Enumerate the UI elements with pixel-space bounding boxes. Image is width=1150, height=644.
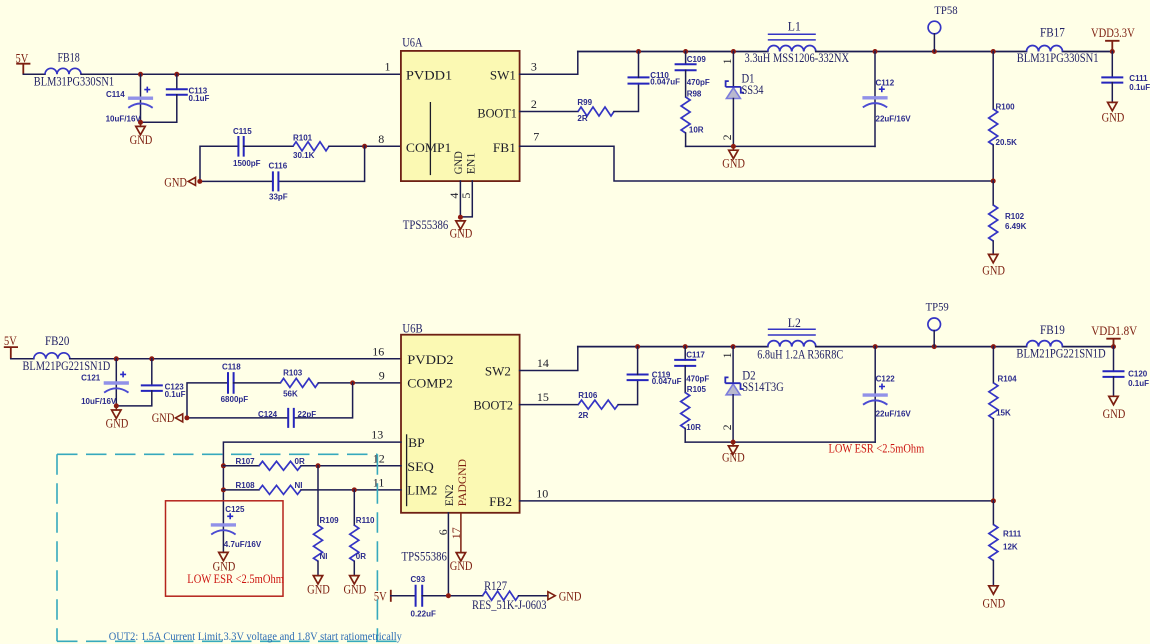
resistor R127 RES_51K-J-0603: [472, 579, 547, 612]
svg-text:GND: GND: [130, 133, 153, 147]
capacitor C120 0.1uF: [1103, 347, 1150, 397]
wire C118 to R103: [234, 382, 281, 384]
capacitor C125 4.7uF/16V (polarized): [211, 505, 262, 553]
wire R106 to C119: [618, 380, 637, 405]
svg-text:L2: L2: [788, 316, 801, 330]
svg-text:5: 5: [459, 193, 473, 199]
capacitor C113 0.1uF: [141, 74, 210, 122]
capacitor C118 6800pF: [221, 363, 249, 404]
svg-text:R111: R111: [1003, 529, 1022, 538]
junction C114/C113 ground node: [138, 120, 143, 125]
svg-text:C115: C115: [233, 127, 252, 136]
svg-text:9: 9: [379, 368, 385, 382]
junction C121/C123 ground node: [114, 403, 119, 408]
svg-text:22pF: 22pF: [298, 410, 317, 419]
svg-text:BLM21PG221SN1D: BLM21PG221SN1D: [1016, 346, 1105, 360]
svg-text:GND: GND: [307, 582, 330, 596]
svg-text:R104: R104: [998, 374, 1018, 383]
junction R109 top (SEQ node): [316, 463, 321, 468]
junction C121 top: [114, 356, 119, 361]
capacitor C114 10uF/16V (polarized): [106, 74, 154, 123]
svg-text:SEQ: SEQ: [407, 459, 434, 474]
capacitor C116 33pF: [269, 162, 288, 202]
wire R99 to C110: [614, 84, 639, 112]
svg-text:8: 8: [378, 132, 384, 146]
resistor R104 15K: [989, 347, 1017, 501]
wire BOOT1 to R99: [520, 111, 578, 113]
junction C123 top: [149, 356, 154, 361]
diode D2 SS14T3G (schottky): [725, 347, 784, 443]
svg-text:2: 2: [722, 424, 734, 430]
svg-text:0.1uF: 0.1uF: [165, 390, 186, 399]
svg-text:R107: R107: [236, 457, 256, 466]
ground under PADGND: [450, 553, 473, 573]
svg-text:10uF/16V: 10uF/16V: [106, 115, 142, 124]
svg-text:GND: GND: [106, 416, 129, 430]
svg-text:12K: 12K: [1003, 542, 1018, 551]
svg-text:15: 15: [537, 390, 549, 404]
svg-text:1: 1: [722, 352, 734, 358]
wire C124 lower branch: [187, 383, 353, 418]
svg-text:10uF/16V: 10uF/16V: [81, 397, 117, 406]
junction D2 rail: [731, 344, 736, 349]
junction COMP1 node: [362, 144, 367, 149]
svg-text:GND: GND: [164, 175, 187, 189]
svg-text:L1: L1: [788, 19, 801, 33]
junction COMP2 ground node: [184, 415, 189, 420]
junction C113 top: [174, 72, 179, 77]
svg-text:GND: GND: [152, 411, 175, 425]
wire EN2 pin 6 down: [447, 513, 449, 596]
ground under D1: [722, 146, 745, 170]
annotation box LOW ESR (red): [166, 501, 284, 596]
svg-text:0.22uF: 0.22uF: [411, 609, 436, 618]
capacitor C111 0.1uF: [1101, 52, 1150, 103]
resistor R109 NI: [314, 466, 340, 576]
svg-text:C116: C116: [269, 162, 288, 171]
ground under C111: [1102, 102, 1125, 124]
svg-text:16: 16: [372, 344, 384, 358]
svg-text:GND: GND: [1103, 407, 1126, 421]
svg-text:C114: C114: [106, 90, 125, 99]
capacitor C117 470pF: [674, 347, 709, 393]
svg-text:SW2: SW2: [485, 363, 511, 378]
svg-text:FB18: FB18: [58, 51, 80, 65]
ground under C121: [106, 406, 129, 431]
svg-text:PADGND: PADGND: [455, 459, 469, 507]
svg-text:GND: GND: [343, 582, 366, 596]
wire BP to C125: [223, 442, 401, 525]
svg-text:BLM31PG330SN1: BLM31PG330SN1: [1017, 51, 1099, 65]
svg-text:BP: BP: [408, 435, 425, 450]
svg-text:20.5K: 20.5K: [996, 138, 1018, 147]
wire output rail (L2 to VDD1.8V): [816, 346, 1114, 348]
svg-text:PVDD2: PVDD2: [407, 352, 453, 367]
svg-text:56K: 56K: [283, 389, 298, 398]
ground under R111: [982, 586, 1005, 611]
resistor R100 20.5K: [989, 52, 1017, 182]
resistor R107 0R: [223, 457, 401, 470]
junction C117 rail: [683, 344, 688, 349]
svg-text:C122: C122: [876, 374, 896, 383]
power flag VDD3.3V: [1091, 26, 1135, 51]
junction VDD1.8V node: [1111, 344, 1116, 349]
svg-text:SS14T3G: SS14T3G: [742, 380, 784, 394]
wire R101 to pin COMP1: [329, 145, 401, 147]
wire pins 4,5 to ground: [460, 181, 472, 217]
ground under U6A pins 4,5: [450, 221, 473, 241]
junction C110 rail: [636, 49, 641, 54]
op-amp / regulator U6A TPS55386: [401, 34, 520, 231]
svg-text:LIM2: LIM2: [407, 483, 437, 498]
annotation dashed box OUT2: [57, 454, 402, 641]
svg-text:R102: R102: [1005, 212, 1025, 221]
junction C119 rail: [635, 344, 640, 349]
svg-text:BLM21PG221SN1D: BLM21PG221SN1D: [23, 359, 111, 373]
capacitor C122 22uF/16V (polarized): [863, 347, 912, 443]
junction COMP1 ground node: [197, 179, 202, 184]
svg-text:R109: R109: [320, 516, 340, 525]
svg-text:C125: C125: [225, 505, 245, 514]
junction TP58 rail: [932, 49, 937, 54]
svg-text:COMP2: COMP2: [407, 376, 453, 391]
svg-text:7: 7: [533, 130, 539, 144]
junction C114 top: [138, 72, 143, 77]
wire FB2 to divider: [520, 500, 994, 502]
wire output rail (L1 to VDD3.3V): [816, 51, 1113, 53]
svg-text:22uF/16V: 22uF/16V: [876, 410, 912, 419]
svg-text:6.49K: 6.49K: [1005, 222, 1027, 231]
svg-text:C118: C118: [222, 363, 241, 372]
svg-text:C120: C120: [1128, 370, 1148, 379]
svg-text:GND: GND: [450, 227, 473, 241]
svg-text:12: 12: [373, 451, 385, 465]
svg-text:GND: GND: [450, 559, 473, 573]
diode D1 SS34 (schottky): [726, 52, 765, 147]
junction C109 rail: [683, 49, 688, 54]
ground under R110: [343, 576, 366, 597]
ground under C125: [213, 552, 236, 573]
svg-text:R100: R100: [996, 103, 1016, 112]
ferrite bead FB17: [1017, 25, 1099, 65]
ground (arrow) COMP1 network: [164, 175, 195, 189]
resistor R101 30.1K: [293, 134, 329, 161]
svg-text:EN2: EN2: [442, 484, 456, 506]
svg-text:1: 1: [385, 60, 391, 74]
junction VDD3.3V node: [1110, 49, 1115, 54]
svg-text:30.1K: 30.1K: [293, 151, 315, 160]
ferrite bead FB20: [23, 334, 111, 373]
svg-text:0.1uF: 0.1uF: [1129, 83, 1150, 92]
svg-text:GND: GND: [982, 264, 1005, 278]
svg-text:TPS55386: TPS55386: [402, 549, 447, 563]
ground (arrow) after R127: [548, 590, 582, 604]
svg-text:C121: C121: [81, 374, 101, 383]
svg-text:2: 2: [531, 97, 537, 111]
junction R110 top (LIM2 node): [352, 487, 357, 492]
svg-text:U6B: U6B: [402, 320, 423, 335]
wire output rail (SW2 node to L2): [578, 346, 768, 348]
wire SW2 to output rail: [520, 347, 578, 371]
svg-text:VDD3.3V: VDD3.3V: [1091, 26, 1135, 40]
resistor R102 6.49K: [989, 181, 1027, 254]
junction pins 4/5 ground: [458, 215, 463, 220]
resistor R106 2R: [578, 391, 618, 420]
svg-text:BOOT1: BOOT1: [477, 105, 517, 120]
svg-text:10: 10: [536, 486, 548, 500]
power flag VDD1.8V: [1091, 324, 1137, 347]
resistor R103 56K: [280, 368, 318, 398]
junction D2 ground: [731, 440, 736, 445]
svg-text:FB20: FB20: [45, 334, 69, 348]
svg-text:C117: C117: [686, 350, 705, 359]
test point TP59: [926, 300, 949, 347]
junction FB2 node: [991, 498, 996, 503]
svg-text:6.8uH 1.2A R36R8C: 6.8uH 1.2A R36R8C: [757, 347, 843, 361]
wire 5V to C93: [391, 595, 416, 597]
ground under D2: [722, 442, 745, 465]
power flag 5V (EN2 RC): [374, 590, 391, 604]
wire C115 to R101: [244, 145, 293, 147]
svg-text:SW1: SW1: [490, 68, 516, 83]
svg-text:LOW ESR <2.5mOhm: LOW ESR <2.5mOhm: [187, 572, 284, 586]
junction R107 left: [221, 463, 226, 468]
ground under R102: [982, 254, 1005, 277]
svg-text:C93: C93: [411, 575, 426, 584]
svg-text:2: 2: [722, 134, 734, 140]
svg-text:SS34: SS34: [742, 83, 765, 97]
svg-text:14: 14: [537, 356, 549, 370]
resistor R99 2R: [577, 98, 614, 123]
svg-text:4.7uF/16V: 4.7uF/16V: [224, 540, 262, 549]
svg-text:GND: GND: [722, 451, 745, 465]
svg-text:13: 13: [371, 428, 383, 442]
svg-text:0.1uF: 0.1uF: [189, 94, 210, 103]
svg-text:TP58: TP58: [934, 3, 957, 17]
svg-text:2R: 2R: [578, 411, 588, 420]
svg-text:0R: 0R: [295, 457, 305, 466]
svg-text:0.047uF: 0.047uF: [650, 78, 680, 87]
svg-text:10R: 10R: [689, 125, 704, 134]
svg-text:FB17: FB17: [1040, 25, 1065, 39]
junction D1 rail: [731, 49, 736, 54]
capacitor C112 22uF/16V (polarized): [862, 52, 911, 147]
svg-text:R103: R103: [283, 368, 303, 377]
svg-text:C111: C111: [1129, 74, 1148, 83]
resistor R111 12K: [989, 501, 1022, 586]
capacitor C121 10uF/16V (polarized): [81, 359, 129, 406]
resistor R105 10R: [681, 385, 707, 442]
junction C112 rail: [873, 49, 878, 54]
svg-text:C112: C112: [876, 79, 895, 88]
wire FB18 to pin PVDD1 (5V input node): [81, 73, 401, 75]
svg-text:GND: GND: [1102, 111, 1125, 125]
wire COMP1 branch left: [200, 146, 238, 181]
svg-text:R106: R106: [578, 391, 598, 400]
wire BOOT2 to R106: [520, 404, 579, 406]
junction R108 left: [221, 487, 226, 492]
svg-text:FB2: FB2: [489, 494, 512, 509]
wire R103 to pin COMP2: [318, 382, 401, 384]
wire COMP2 branch left: [187, 383, 228, 418]
svg-text:3.3uH MSS1206-332NX: 3.3uH MSS1206-332NX: [745, 51, 850, 65]
svg-text:PVDD1: PVDD1: [406, 68, 452, 83]
junction R104 rail: [991, 344, 996, 349]
wire FB20 to pin PVDD2: [70, 358, 401, 360]
svg-text:COMP1: COMP1: [406, 140, 452, 155]
svg-text:RES_51K-J-0603: RES_51K-J-0603: [472, 598, 547, 612]
svg-text:BLM31PG330SN1: BLM31PG330SN1: [34, 74, 114, 88]
svg-text:GND: GND: [559, 590, 582, 604]
svg-text:1500pF: 1500pF: [233, 159, 261, 168]
svg-text:15K: 15K: [996, 409, 1011, 418]
svg-text:33pF: 33pF: [269, 192, 288, 201]
svg-text:22uF/16V: 22uF/16V: [876, 114, 912, 123]
svg-text:R110: R110: [356, 516, 375, 525]
capacitor C119 0.047uF: [627, 347, 682, 386]
wire R127 to ground arrow: [519, 595, 548, 597]
wire snubber/diode/C112 ground: [686, 145, 875, 147]
test point TP58: [928, 3, 958, 51]
svg-text:LOW ESR <2.5mOhm: LOW ESR <2.5mOhm: [829, 441, 925, 455]
wire C93 to R127: [422, 595, 482, 597]
power flag 5V input (top): [16, 51, 31, 74]
svg-text:0.1uF: 0.1uF: [1128, 379, 1149, 388]
svg-text:3: 3: [531, 60, 537, 74]
pin PADGND wire (pin 17): [460, 513, 462, 553]
wire 5V to FB20: [11, 358, 34, 360]
capacitor C110 0.047uF: [628, 52, 681, 87]
svg-text:FB1: FB1: [493, 140, 516, 155]
svg-text:0.047uF: 0.047uF: [652, 377, 682, 386]
wire snubber/diode/C122 ground (bottom): [685, 441, 875, 443]
svg-text:EN1: EN1: [464, 153, 478, 175]
svg-text:5V: 5V: [4, 334, 17, 348]
svg-text:C109: C109: [687, 55, 707, 64]
junction COMP2 node: [350, 380, 355, 385]
wire output rail (SW node to L1): [578, 51, 768, 53]
svg-text:TPS55386: TPS55386: [403, 218, 448, 232]
svg-text:R105: R105: [687, 385, 707, 394]
wire 5V to FB18: [23, 73, 45, 75]
inductor L2 6.8uH: [768, 316, 816, 346]
capacitor C124 22pF: [258, 408, 316, 428]
capacitor C115 1500pF: [233, 127, 261, 168]
svg-text:2R: 2R: [577, 114, 587, 123]
junction D1 ground: [731, 144, 736, 149]
svg-text:5V: 5V: [374, 590, 387, 604]
wire SW1 to output rail: [520, 52, 578, 75]
junction C122 rail: [873, 344, 878, 349]
svg-text:R108: R108: [236, 481, 256, 490]
resistor R110 0R: [350, 490, 375, 576]
op-amp / regulator U6B TPS55386: [401, 320, 520, 563]
svg-text:6800pF: 6800pF: [221, 395, 249, 404]
svg-text:VDD1.8V: VDD1.8V: [1091, 324, 1137, 338]
wire C116 lower branch: [200, 146, 365, 181]
svg-text:10R: 10R: [686, 423, 701, 432]
svg-text:C124: C124: [258, 410, 278, 419]
ground under C114: [130, 122, 153, 147]
svg-text:BOOT2: BOOT2: [474, 397, 514, 412]
svg-text:470pF: 470pF: [686, 374, 709, 383]
ground (arrow) COMP2 network: [152, 411, 183, 425]
svg-text:11: 11: [373, 475, 385, 489]
svg-text:GND: GND: [982, 597, 1005, 611]
svg-text:R127: R127: [484, 579, 507, 593]
power flag 5V input (bottom): [4, 334, 18, 359]
junction EN2 node: [446, 593, 451, 598]
svg-text:R98: R98: [687, 89, 702, 98]
svg-text:OUT2: 1.5A Current Limit,3.3V: OUT2: 1.5A Current Limit,3.3V voltage an…: [109, 630, 402, 643]
wire FB1 to divider: [520, 146, 994, 181]
svg-text:0R: 0R: [356, 552, 366, 561]
resistor R98 10R: [681, 89, 704, 146]
svg-text:R99: R99: [577, 98, 592, 107]
ferrite bead FB19: [1016, 323, 1105, 360]
capacitor C123 0.1uF: [116, 359, 185, 406]
svg-text:U6A: U6A: [402, 34, 423, 49]
svg-text:NI: NI: [320, 552, 328, 561]
ground under R109: [307, 576, 330, 597]
junction TP59 rail: [932, 344, 937, 349]
svg-text:FB19: FB19: [1040, 323, 1065, 337]
svg-text:NI: NI: [295, 481, 303, 490]
resistor R108 NI: [223, 481, 401, 494]
svg-text:TP59: TP59: [926, 300, 949, 314]
svg-text:R101: R101: [293, 134, 313, 143]
junction R100 rail: [991, 49, 996, 54]
ferrite bead FB18: [34, 51, 114, 89]
capacitor C109 470pF: [675, 52, 710, 98]
svg-text:GND: GND: [722, 156, 745, 170]
inductor L1 3.3uH: [768, 19, 816, 51]
svg-text:470pF: 470pF: [687, 78, 710, 87]
junction FB1 node: [991, 179, 996, 184]
capacitor C93 0.22uF: [411, 575, 436, 618]
ground under C120: [1103, 396, 1126, 421]
svg-text:1: 1: [722, 58, 734, 64]
